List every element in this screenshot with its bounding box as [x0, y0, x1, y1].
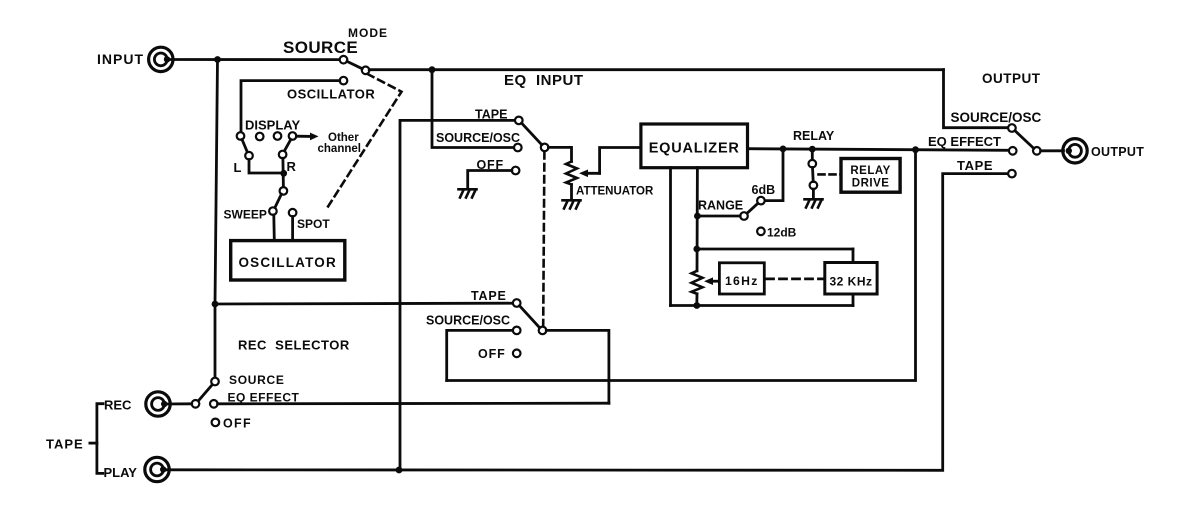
wire down to EQ INPUT source/osc: [432, 70, 514, 148]
wire SWEEP to oscillator box: [272, 215, 275, 241]
wire vertical eq-input tape feed: [400, 120, 515, 470]
wire rec-out source/osc riser: [447, 330, 513, 380]
junction dot range: [694, 213, 701, 220]
junction dot L/R: [280, 170, 287, 177]
wire 6dB branch: [765, 149, 783, 201]
svg-text:12dB: 12dB: [767, 226, 797, 240]
svg-text:OSCILLATOR: OSCILLATOR: [238, 255, 337, 270]
svg-text:ATTENUATOR: ATTENUATOR: [576, 186, 654, 198]
node SWEEP contact: [269, 207, 277, 215]
wire rec-out tape line: [215, 302, 513, 306]
wire play line to output tape: [163, 174, 1008, 471]
wire L to junction: [249, 160, 284, 174]
svg-text:MODE: MODE: [348, 26, 388, 40]
wire loop top line: [697, 248, 853, 251]
switch L lever: [242, 139, 247, 152]
switch OUTPUT: EQ EFFECT contact: [1009, 147, 1017, 155]
svg-text:EQ EFFECT: EQ EFFECT: [928, 134, 1001, 149]
output jack J4: [1063, 139, 1087, 163]
node RANGE pivot: [740, 212, 748, 220]
svg-text:REC SELECTOR: REC SELECTOR: [238, 338, 350, 353]
switch MODE: pivot contact: [362, 67, 370, 75]
svg-text:16Hz: 16Hz: [725, 274, 759, 288]
wire output source/osc drop: [944, 70, 1009, 128]
wire oscillator contact to display: [241, 81, 340, 133]
switch MODE: OSCILLATOR contact: [340, 77, 348, 85]
node 12dB contact: [757, 228, 765, 236]
wire output pivot to jack: [1041, 149, 1064, 152]
box 16Hz: [719, 263, 764, 294]
node REC EQ EFFECT contact: [210, 400, 218, 408]
node display contact 1: [237, 132, 245, 140]
relay drive box U3: [841, 159, 900, 193]
wire equalizer output line: [748, 149, 1009, 151]
play jack J3: [145, 457, 169, 481]
wire input to SOURCE contact: [167, 58, 340, 61]
svg-text:TAPE: TAPE: [46, 437, 84, 452]
wire pivot to attenuator: [548, 147, 571, 161]
svg-text:SWEEP: SWEEP: [224, 208, 267, 222]
wiper arrow pot: [704, 277, 719, 285]
svg-text:TAPE: TAPE: [475, 108, 507, 122]
svg-text:RELAY: RELAY: [850, 165, 890, 177]
node L contact: [245, 152, 253, 160]
svg-text:REC: REC: [104, 398, 132, 413]
wire main line from MODE pivot to output corner: [369, 68, 943, 71]
svg-text:RANGE: RANGE: [698, 199, 743, 213]
svg-text:OFF: OFF: [223, 417, 252, 431]
dashed link 16Hz to 32KHz: [767, 277, 823, 280]
junction dot EQ input branch: [429, 66, 436, 73]
node 6dB contact: [757, 197, 765, 205]
switch MODE lever: [347, 61, 362, 68]
svg-text:OUTPUT: OUTPUT: [982, 71, 1041, 86]
ground (attenuator): [563, 200, 581, 208]
svg-text:DISPLAY: DISPLAY: [245, 118, 300, 133]
svg-text:TAPE: TAPE: [957, 158, 993, 173]
svg-text:SOURCE: SOURCE: [283, 38, 358, 57]
svg-text:RELAY: RELAY: [793, 129, 835, 143]
node EQ INPUT OFF contact: [512, 167, 520, 175]
wire R down to junction and mid contact: [281, 158, 284, 187]
junction dot input branch: [214, 56, 221, 63]
attenuator R1 (resistor): [566, 162, 577, 185]
relay contact bottom: [810, 182, 818, 190]
node R contact: [279, 151, 287, 159]
wiper arrow attenuator to equalizer: [579, 148, 641, 178]
dashed gang link MODE to SWEEP/SPOT switch: [326, 74, 402, 211]
wire attenuator to ground: [570, 185, 573, 200]
node OUTPUT TAPE contact: [1008, 170, 1016, 178]
switch lever to SWEEP: [275, 194, 282, 208]
switch EQ INPUT lever: [522, 123, 542, 145]
junction dot play/eq-input-tape: [396, 467, 403, 474]
junction dot relay branch: [809, 146, 816, 153]
label RELAY DRIVE: [850, 165, 890, 190]
node REC OUT OFF contact: [513, 350, 521, 358]
wire relay feed: [811, 149, 814, 160]
svg-text:SOURCE/OSC: SOURCE/OSC: [436, 131, 520, 145]
wire pot to loop bottom: [695, 294, 698, 306]
wire equalizer bottom left vertical: [669, 168, 672, 306]
svg-text:OUTPUT: OUTPUT: [1091, 145, 1144, 159]
wire RANGE to equalizer vertical: [697, 215, 740, 218]
svg-text:EQUALIZER: EQUALIZER: [649, 141, 740, 157]
rec jack J2: [146, 392, 170, 416]
relay lever: [811, 168, 815, 182]
switch REC OUT: TAPE contact: [513, 299, 521, 307]
svg-text:SPOT: SPOT: [297, 217, 330, 231]
svg-text:R: R: [287, 159, 297, 174]
wire equalizer bottom mid vertical: [696, 168, 699, 271]
node REC lever contact: [192, 400, 200, 408]
switch REC lever: [198, 385, 212, 401]
node REC SOURCE contact: [211, 378, 219, 386]
switch OUTPUT: pivot contact: [1033, 147, 1041, 155]
wire rec-out pivot to eq effect line: [546, 330, 609, 403]
ground (relay): [805, 199, 823, 207]
junction dot loop top: [693, 246, 700, 253]
svg-text:SOURCE: SOURCE: [229, 373, 285, 387]
node display contact 2: [256, 133, 264, 141]
wire relay to ground: [812, 189, 815, 198]
svg-text:INPUT: INPUT: [97, 51, 144, 67]
box 32KHz: [825, 263, 877, 295]
svg-text:SOURCE/OSC: SOURCE/OSC: [426, 314, 510, 328]
junction dot eq-effect feedback branch: [912, 146, 919, 153]
ground (eq input off): [459, 189, 477, 197]
equalizer box U2: [641, 124, 748, 168]
wire OFF to ground: [468, 171, 512, 189]
node SPOT contact: [289, 209, 297, 217]
node mid pivot contact: [280, 187, 288, 195]
wire eq-effect feedback down and left: [447, 150, 916, 381]
svg-text:32 KHz: 32 KHz: [829, 275, 872, 289]
node display contact 4: [289, 132, 297, 140]
svg-text:L: L: [234, 160, 242, 175]
switch EQ INPUT: pivot contact: [541, 144, 549, 152]
svg-text:EQ INPUT: EQ INPUT: [504, 72, 584, 89]
oscillator box U1: [231, 241, 345, 280]
svg-text:OSCILLATOR: OSCILLATOR: [287, 87, 375, 102]
switch REC OUT: SOURCE/OSC contact: [513, 327, 521, 335]
relay contact top: [809, 160, 817, 168]
switch RANGE lever: [747, 203, 758, 213]
switch OUTPUT: SOURCE/OSC contact: [1008, 124, 1016, 132]
wire loop right edge: [852, 249, 855, 306]
switch REC OUT lever: [520, 306, 540, 328]
dashed gang link EQ INPUT to REC OUT selector: [543, 152, 544, 326]
input jack J1: [149, 47, 173, 71]
svg-text:OFF: OFF: [478, 347, 506, 361]
svg-text:SOURCE/OSC: SOURCE/OSC: [951, 110, 1042, 125]
svg-text:6dB: 6dB: [752, 183, 776, 197]
node REC OFF contact: [212, 419, 220, 427]
wire eq effect line to rec selector: [218, 402, 609, 405]
junction dot 6dB branch: [780, 146, 787, 153]
node display contact 3: [274, 132, 282, 140]
svg-text:TAPE: TAPE: [471, 289, 507, 303]
switch OUTPUT lever: [1015, 131, 1034, 149]
wire SPOT to oscillator box: [291, 217, 294, 241]
switch R lever: [284, 139, 291, 151]
junction dot rec branch: [212, 301, 219, 308]
dashed link relay to relay drive: [819, 173, 842, 176]
switch REC OUT: pivot contact: [539, 327, 547, 335]
switch EQ INPUT: SOURCE/OSC contact: [514, 144, 522, 152]
svg-text:DRIVE: DRIVE: [852, 178, 890, 190]
tape bracket: [90, 404, 103, 474]
svg-text:channel: channel: [318, 143, 361, 155]
wire rec jack to lever: [164, 402, 192, 405]
wire loop bottom line: [671, 304, 854, 307]
svg-text:PLAY: PLAY: [104, 465, 138, 480]
potentiometer R2: [692, 271, 703, 294]
junction dot loop bottom: [693, 302, 700, 309]
switch EQ INPUT: TAPE contact: [515, 117, 523, 125]
arrow to other channel: [296, 133, 318, 141]
switch MODE: SOURCE contact: [340, 56, 348, 64]
wire vertical input down to REC selector: [215, 60, 218, 378]
